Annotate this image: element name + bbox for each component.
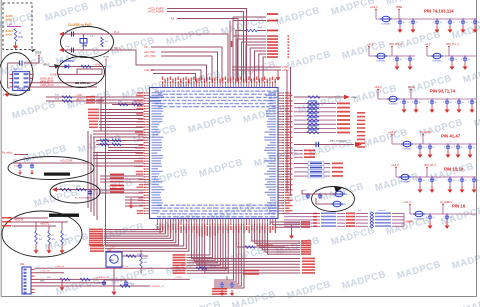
ground left mid [130, 202, 132, 205]
ground U16 [113, 288, 115, 292]
wire power rail G2a [369, 55, 415, 57]
svg-text:DGND_BUS: DGND_BUS [40, 79, 53, 81]
capacitor G3C0 [403, 98, 404, 99]
ferrite bead G2b [433, 53, 441, 59]
ferrite bead G6 [415, 211, 423, 217]
svg-text:+TxD: +TxD [76, 94, 82, 97]
capacitor G2bC0 [451, 55, 452, 56]
wire staircase bottom S3 [252, 225, 300, 241]
svg-text:PIN 16: PIN 16 [452, 204, 466, 209]
svg-text:3v3A: 3v3A [6, 18, 13, 22]
svg-text:1u: 1u [477, 180, 479, 182]
dashed option box [3, 3, 32, 50]
ground G1G2 [436, 25, 438, 26]
svg-text:1u: 1u [440, 22, 442, 24]
svg-text:VDDE: VDDE [351, 97, 358, 99]
arrow callout beads [334, 186, 342, 193]
wire row right cap [294, 144, 354, 146]
svg-text:+Rq_eMMC50: +Rq_eMMC50 [258, 245, 274, 247]
svg-text:24C02/SO8: 24C02/SO8 [3, 93, 17, 97]
capacitor G2aC0 [396, 55, 397, 56]
IC left pin stubs [144, 92, 150, 94]
capacitor G1C1 [412, 18, 413, 19]
wire row right r0 [294, 96, 344, 98]
svg-text:VBBE: VBBE [396, 7, 403, 9]
IC U3 pins [10, 73, 13, 75]
wire staircase bottom S1b [105, 225, 184, 246]
wire rpack bus [403, 214, 405, 227]
capacitor C45 [125, 280, 127, 282]
capacitor G4C4 [469, 143, 470, 144]
svg-text:+SD_CK: +SD_CK [144, 68, 154, 72]
wire beads link [302, 190, 333, 204]
capacitor G3C2 [431, 98, 432, 99]
svg-text:BLM18AG: BLM18AG [403, 148, 412, 151]
ferrite bead FB2 [335, 191, 343, 197]
svg-text:J5A: J5A [20, 263, 25, 266]
wire R40 drop [235, 31, 237, 82]
resistor R40 top center [236, 30, 246, 32]
wire rows topright lower [232, 66, 281, 68]
net labels left edge straps [2, 217, 11, 219]
wire power rail G4 [392, 143, 476, 145]
crystal Y1 [80, 39, 87, 44]
wire rows left mid [93, 130, 144, 132]
wire crystal to IC top [111, 34, 228, 82]
wire crystal vertical [82, 34, 84, 50]
wire crystal top [63, 33, 113, 35]
ferrite bead FB3 [333, 201, 341, 207]
capacitor C31 beads [319, 193, 321, 195]
ferrite bead G4 [403, 141, 411, 147]
ground G1G3 [449, 25, 451, 26]
capacitor G3C5 [471, 98, 472, 99]
svg-text:Vq_eMMCs: Vq_eMMCs [440, 202, 453, 204]
wire usb row1 [49, 66, 103, 68]
svg-text:24C02: 24C02 [17, 86, 25, 90]
capacitor C11 [71, 32, 73, 37]
svg-text:D5 BATB4H: D5 BATB4H [60, 59, 74, 63]
ground G2aG1 [409, 62, 411, 63]
capacitor G4C0 [419, 143, 420, 144]
svg-text:R36: R36 [19, 36, 24, 39]
svg-text:BLM18AG: BLM18AG [433, 60, 442, 63]
capacitor G1C0 [399, 18, 400, 19]
capacitor G4C3 [457, 143, 458, 144]
svg-text:+PC3_PU/PD: +PC3_PU/PD [148, 10, 164, 14]
callout ellipse straps [2, 211, 82, 257]
svg-text:BLM18AG: BLM18AG [382, 23, 391, 26]
capacitor G3C1 [415, 98, 416, 99]
ground G4G2 [447, 150, 449, 151]
svg-text:+3v3_P: +3v3_P [374, 87, 382, 89]
wire J5A row2 [35, 278, 161, 280]
wire U16 down [104, 267, 126, 280]
wire vertical left extra [100, 97, 102, 131]
wire usb row3 [46, 96, 104, 98]
wire usb row3 vertical [105, 160, 107, 245]
capacitor G4C1 [429, 143, 430, 144]
wire staircase bottom S2c [192, 225, 300, 259]
capacitor C12 [71, 48, 73, 53]
wire rows left upper [100, 109, 144, 111]
svg-text:+3v_P: +3v_P [367, 44, 374, 46]
wire straps bus2 [12, 225, 56, 227]
resistor R16 usb [81, 65, 91, 68]
resistor rows right of IC [294, 103, 336, 105]
capacitor G6C0 [429, 213, 430, 214]
arrow pad top [59, 32, 64, 36]
IC bottom outer red pin labels [157, 226, 276, 237]
svg-text:+1v2_P: +1v2_P [403, 202, 411, 204]
resistor R25 rc [76, 188, 86, 191]
resistor R12 crystal [101, 37, 104, 47]
net label cluster left [110, 174, 124, 176]
resistor R33 vertical [140, 255, 143, 268]
svg-text:VDDE: VDDE [35, 53, 42, 55]
capacitor G6C1 [446, 213, 447, 214]
svg-text:+3v3: +3v3 [110, 247, 116, 249]
capacitor bottom center 1 [221, 282, 223, 284]
svg-text:Rx_Rail3_Power: Rx_Rail3_Power [75, 197, 92, 200]
svg-text:1u: 1u [475, 102, 477, 104]
svg-text:BLM18AG: BLM18AG [401, 181, 410, 184]
wire long vertical right B [290, 67, 292, 196]
wire rows left lower [93, 152, 144, 154]
svg-text:+DEBUG_TX: +DEBUG_TX [151, 286, 165, 288]
ground G3G2 [431, 105, 433, 106]
svg-text:+PU_PD1: +PU_PD1 [144, 50, 156, 54]
capacitor G4C2 [447, 143, 448, 144]
black bar marker 1 [44, 173, 70, 176]
ground U3 [6, 91, 8, 94]
label mini USB-dio [75, 82, 79, 84]
wire straps bus1 [8, 221, 68, 223]
ground G5G1 [431, 183, 433, 186]
svg-text:1u: 1u [468, 59, 470, 61]
svg-text:1u: 1u [400, 59, 402, 61]
wire power rail G1 [376, 18, 476, 20]
capacitor G5C3 [461, 176, 462, 177]
capacitor C21 [19, 163, 21, 165]
callout ellipse power caps [8, 157, 94, 180]
svg-text:1u: 1u [455, 59, 457, 61]
svg-text:TP_A: TP_A [210, 265, 216, 268]
capacitor G1C5 [474, 18, 475, 19]
wire Rx [15, 154, 28, 156]
svg-text:PIN 10,19: PIN 10,19 [444, 167, 464, 172]
ground G3G4 [458, 105, 460, 106]
wire U3 scl [33, 82, 97, 84]
wire bundle top-left fan [167, 9, 247, 82]
capacitor G2aC1 [409, 55, 410, 56]
wire U3 sda [33, 86, 97, 88]
op-amp U1 main MCU body [150, 88, 279, 219]
svg-text:BLM18AG: BLM18AG [377, 60, 386, 63]
ground J5A mid [61, 279, 63, 284]
wire power rail G5 [396, 176, 476, 178]
svg-text:1u: 1u [435, 180, 437, 182]
svg-text:+JTDO: +JTDO [175, 277, 182, 279]
ground G2aG0 [396, 62, 398, 63]
ground G4G0 [419, 150, 421, 151]
ground G5G4 [473, 183, 475, 186]
svg-text:1u: 1u [416, 22, 418, 24]
wire rc row [56, 189, 98, 191]
svg-text:+USB: +USB [50, 73, 57, 76]
svg-text:1M: 1M [105, 41, 108, 43]
resistors strap R41 R42 R43 [35, 222, 37, 231]
svg-text:1u: 1u [403, 22, 405, 24]
ground G3G0 [403, 105, 405, 106]
ground G5G2 [449, 183, 451, 186]
ground topright [277, 70, 279, 74]
net labels top-right column [267, 35, 278, 37]
ground G2bG0 [451, 62, 453, 63]
arrow callout usb [54, 64, 60, 69]
ground G2bG1 [464, 62, 466, 63]
svg-text:1u: 1u [435, 102, 437, 104]
capacitor bottom center 2 [231, 282, 233, 284]
capacitor G1C3 [449, 18, 450, 19]
svg-text:PIN 93,71,74: PIN 93,71,74 [430, 89, 456, 94]
capacitor G3C3 [446, 98, 447, 99]
ferrite bead G2a [377, 53, 385, 59]
svg-text:U3: U3 [14, 67, 18, 71]
ferrite bead G1 [382, 16, 390, 22]
junction J5A [105, 282, 106, 283]
svg-text:VDD_PLL_P: VDD_PLL_P [389, 44, 402, 46]
wire staircase bottom S2a [187, 225, 210, 255]
label C34 cluster [150, 97, 164, 99]
wire rows top-right upper [233, 16, 266, 18]
svg-text:1u: 1u [473, 147, 475, 149]
svg-text:24M: 24M [82, 44, 87, 48]
ground G6G1 [446, 220, 448, 222]
arrow pad bottom [59, 48, 64, 52]
capacitor G5C1 [431, 176, 432, 177]
wire short rows right [294, 150, 303, 152]
capacitor G2bC1 [464, 55, 465, 56]
ferrite bead G3 [389, 96, 397, 102]
wire row +3V3 pullups [112, 104, 144, 106]
ferrite bead G5 [401, 174, 409, 180]
svg-text:PIN 74,103,114: PIN 74,103,114 [424, 9, 454, 14]
svg-text:VDDm: VDDm [408, 87, 415, 89]
wire staircase bottom S2b [214, 225, 233, 280]
svg-text:1u: 1u [453, 22, 455, 24]
svg-text:DP_BUS: DP_BUS [40, 83, 50, 85]
capacitor G1C2 [436, 18, 437, 19]
capacitor C22 [31, 163, 33, 165]
svg-text:1u: 1u [433, 147, 435, 149]
svg-text:+VCC_5P: +VCC_5P [40, 271, 50, 273]
svg-text:1u: 1u [450, 217, 452, 219]
junction pcaps [19, 162, 20, 163]
wire usb out right [103, 67, 106, 161]
arrow rc left [52, 187, 57, 191]
svg-text:BLM18AG: BLM18AG [389, 103, 398, 106]
wire power rail G3 [378, 98, 476, 100]
svg-text:1u: 1u [466, 22, 468, 24]
resistor pair row2 [96, 144, 144, 146]
capacitor C30 beads [307, 193, 309, 195]
svg-text:CLOSE to PAD: CLOSE to PAD [68, 23, 92, 27]
callout ellipse RC filter [50, 181, 100, 203]
svg-text:+SDA_PU3V: +SDA_PU3V [40, 84, 54, 87]
svg-text:+RxD: +RxD [76, 98, 82, 101]
svg-text:1u: 1u [413, 59, 415, 61]
resistor R34 u16 right [122, 255, 148, 257]
pin numbers above top edge [162, 77, 163, 81]
svg-text:10K: 10K [144, 262, 148, 264]
wire pcaps bus [12, 162, 92, 164]
ground G1G1 [412, 25, 414, 26]
svg-text:VDDE: VDDE [103, 57, 110, 59]
connector J5A pins [24, 269, 27, 271]
svg-text:BLM18AG: BLM18AG [415, 218, 424, 221]
wire bundle IC top-right staircase [233, 36, 266, 82]
wire J5A row3 [35, 282, 106, 284]
svg-text:1u: 1u [465, 180, 467, 182]
svg-text:1u: 1u [423, 147, 425, 149]
svg-text:PIN 41,47: PIN 41,47 [441, 134, 461, 139]
wire rows left extra [96, 96, 144, 98]
wire long vertical right A [286, 70, 288, 192]
ground G1G0 [399, 25, 401, 26]
svg-text:+PU_PD0: +PU_PD0 [144, 54, 156, 58]
IC U3 24C02 body [13, 72, 30, 91]
capacitor G1C4 [462, 18, 463, 19]
svg-text:26M: 26M [109, 260, 114, 262]
svg-text:series22: series22 [378, 210, 386, 212]
IC right pin stubs [278, 92, 284, 94]
svg-text:VBUS: VBUS [43, 65, 50, 67]
svg-text:10K: 10K [65, 239, 69, 241]
callout ellipse emi beads [312, 187, 355, 212]
svg-text:VD: VD [144, 45, 148, 49]
svg-text:U16: U16 [107, 250, 112, 252]
wire debug long [160, 278, 190, 280]
ground G3G1 [415, 105, 417, 106]
inductor L2 [60, 188, 71, 191]
wire crystal to IC bottom [111, 50, 207, 82]
IC bottom pin stubs [157, 219, 159, 226]
wire staircase bottom S1 [104, 225, 160, 230]
svg-text:OWR: OWR [406, 220, 412, 224]
svg-text:10K: 10K [52, 239, 56, 241]
ground G4G3 [457, 150, 459, 151]
svg-text:10K: 10K [39, 239, 43, 241]
svg-text:3v3A: 3v3A [6, 33, 13, 37]
svg-text:+1v8_P: +1v8_P [388, 132, 396, 134]
wire U3 vcc [38, 55, 40, 63]
svg-text:+BOOT0: +BOOT0 [14, 220, 24, 222]
svg-text:+BOOT1: +BOOT1 [40, 224, 50, 226]
wire option link [7, 26, 21, 28]
ground G5G0 [419, 183, 421, 186]
wire power rail G2b [427, 55, 476, 57]
ground G4G4 [469, 150, 471, 151]
resistor pair row1 [96, 140, 144, 142]
capacitor C8 U3 [19, 61, 21, 66]
wire bottom center caps [222, 279, 232, 281]
svg-text:1u: 1u [453, 180, 455, 182]
svg-text:WNB-dio: WNB-dio [80, 82, 91, 85]
capacitor G5C2 [449, 176, 450, 177]
svg-text:VDD_SD_P: VDD_SD_P [424, 165, 437, 167]
svg-text:DAC_12(WgkA): DAC_12(WgkA) [330, 140, 346, 143]
wire J5A row4 [35, 285, 151, 287]
wire U3 top loop [8, 63, 39, 88]
svg-text:Rx_vddcx: Rx_vddcx [2, 151, 13, 154]
vertical red text top pins [231, 41, 233, 47]
IC inside pin name labels [152, 91, 279, 218]
ground G1G4 [462, 25, 464, 26]
capacitor C44 [103, 280, 105, 282]
boxed label rows right [294, 163, 330, 165]
wire power rail G6 [410, 213, 476, 215]
wire usb row4 [46, 100, 104, 102]
IC top pin stubs [162, 82, 164, 88]
svg-text:+3O-x: +3O-x [282, 69, 289, 72]
ground G3G5 [471, 105, 473, 106]
vertical bundle left [88, 131, 97, 220]
capacitor G5C0 [419, 176, 420, 177]
svg-text:+2v5_P: +2v5_P [391, 165, 399, 167]
ground G3G3 [446, 105, 448, 106]
svg-text:1u: 1u [407, 102, 409, 104]
black bar marker 2 [49, 214, 79, 217]
IC U16 oscillator body [106, 252, 122, 267]
ground in option box [15, 42, 17, 46]
svg-text:1u: 1u [423, 180, 425, 182]
svg-text:1u: 1u [450, 102, 452, 104]
svg-text:5A: 5A [171, 17, 174, 21]
svg-text:+w_P: +w_P [425, 44, 431, 46]
callout ellipse U3 [0, 53, 33, 96]
svg-text:1u: 1u [433, 217, 435, 219]
junction dots crystal [83, 33, 84, 34]
svg-text:+DEBUG_RX: +DEBUG_RX [96, 277, 110, 279]
junction U16 [113, 279, 114, 280]
junction straps [35, 221, 36, 222]
wire R38 drop [235, 225, 237, 247]
svg-text:1u: 1u [419, 102, 421, 104]
arrow dashed box corner [31, 49, 36, 52]
ground bottom right [291, 225, 293, 232]
ground G1G5 [474, 25, 476, 26]
svg-text:VDD_PLL_m: VDD_PLL_m [446, 44, 459, 46]
wire J5A row1 [35, 272, 65, 274]
svg-text:10uF: 10uF [14, 166, 20, 168]
svg-text:+5v0: +5v0 [95, 63, 101, 66]
IC right outer red pin labels [285, 92, 293, 214]
svg-text:1u: 1u [461, 147, 463, 149]
svg-text:1u: 1u [462, 102, 464, 104]
capacitor C25 rc [89, 190, 91, 192]
net labels bottom center right [243, 270, 259, 272]
svg-text:+3v3_P: +3v3_P [370, 7, 378, 9]
wire crystal bottom [63, 49, 113, 51]
ground G6G0 [429, 220, 431, 222]
connector J5A body [22, 267, 31, 294]
svg-text:1u: 1u [451, 147, 453, 149]
svg-text:+VD_CORE: +VD_CORE [60, 161, 73, 163]
svg-text:+C36_uF: +C36_uF [55, 266, 65, 268]
svg-text:GND: GND [40, 281, 45, 283]
callout ellipse USB [58, 57, 105, 88]
